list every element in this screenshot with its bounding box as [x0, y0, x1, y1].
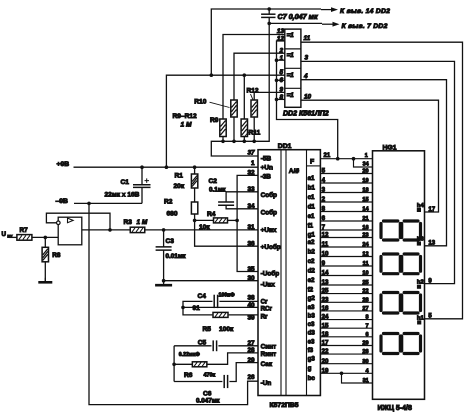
ground under R8: [44, 262, 46, 282]
svg-text:18: 18: [322, 331, 329, 338]
wire: COMMON bus pin32 to pin35: [237, 175, 258, 271]
svg-text:34: 34: [363, 162, 369, 168]
resistor R11: [241, 119, 247, 137]
svg-text:R3: R3: [124, 219, 133, 226]
svg-text:=1: =1: [287, 52, 295, 59]
svg-text:RCr: RCr: [261, 306, 273, 313]
svg-text:26: 26: [362, 349, 368, 355]
display HG1 IZhC5-4/8 body: [373, 151, 425, 399]
svg-text:25: 25: [362, 280, 368, 286]
svg-text:24: 24: [322, 314, 329, 321]
svg-text:К выв. 7 DD2: К выв. 7 DD2: [342, 23, 388, 30]
svg-text:C1: C1: [121, 179, 130, 186]
wire: input 9 line from R12: [254, 92, 285, 100]
wire: pin 29 line with C6: [229, 363, 258, 382]
svg-text:24: 24: [362, 242, 369, 248]
svg-text:-Un: -Un: [261, 380, 272, 387]
svg-text:16: 16: [322, 305, 329, 312]
svg-text:15: 15: [322, 322, 329, 329]
svg-text:20: 20: [322, 358, 329, 365]
wire segment f3: DD1 pin 17 to HG1 pin 29: [320, 345, 372, 347]
svg-text:3: 3: [305, 55, 309, 62]
svg-text:+Un: +Un: [261, 165, 273, 172]
svg-text:16: 16: [362, 225, 368, 231]
svg-text:11: 11: [304, 35, 311, 42]
svg-text:11: 11: [322, 241, 329, 248]
wire: feedback loop: [46, 213, 110, 230]
IC DD2 K561LP2 XOR gate box: [285, 29, 301, 107]
wire segment a3: DD1 pin 23 to HG1 pin 28: [320, 301, 372, 303]
LCD digit 3: [381, 293, 400, 314]
wire: F bus to inputs 12,1,6,8: [277, 41, 338, 159]
svg-text:27: 27: [362, 306, 368, 312]
svg-text:14: 14: [362, 207, 369, 213]
wire R1 top: [194, 167, 196, 174]
svg-text:10: 10: [304, 93, 312, 100]
svg-text:34: 34: [247, 203, 255, 210]
wire segment a1: DD1 pin 5 to HG1 pin 20: [320, 173, 372, 175]
svg-text:Cr: Cr: [261, 299, 268, 306]
svg-text:21: 21: [324, 153, 331, 159]
svg-text:=1: =1: [287, 92, 295, 99]
svg-text:ИЖЦ 5-4/8: ИЖЦ 5-4/8: [378, 405, 412, 412]
wire segment f1: DD1 pin 6 to HG1 pin 21: [320, 220, 372, 222]
wire segment d1: DD1 pin 2 to HG1 pin 15: [320, 201, 372, 203]
wire: -9V to DD1 pin 26 (-Un): [89, 203, 258, 404]
svg-text:-Uвх: -Uвх: [261, 282, 276, 289]
svg-text:0.1мк: 0.1мк: [209, 186, 226, 193]
svg-text:U: U: [2, 231, 7, 238]
wire input: [9, 236, 17, 238]
wire: left bar of integrator: [173, 346, 175, 382]
svg-text:+Uобр: +Uобр: [261, 243, 281, 251]
svg-text:R7: R7: [20, 227, 29, 234]
svg-text:0.22мкФ: 0.22мкФ: [179, 352, 201, 358]
wire segment d2: DD1 pin 9 to HG1 pin 11: [320, 265, 372, 267]
wire R4 to common bus: [228, 219, 238, 221]
svg-text:7: 7: [365, 323, 368, 329]
svg-text:8: 8: [322, 206, 326, 213]
wire: +9V rail to DD1 pin 1: [74, 166, 259, 168]
svg-text:36: 36: [247, 241, 255, 248]
svg-text:DD2 К561ЛП2: DD2 К561ЛП2: [283, 111, 329, 118]
wire: R11 to input 5 line: [243, 75, 245, 119]
wire: VSS line to pin 7 of DD2: [269, 22, 322, 24]
svg-text:g2: g2: [308, 295, 316, 302]
svg-text:30: 30: [247, 275, 255, 282]
svg-text:32: 32: [247, 170, 255, 177]
svg-text:R9–R12: R9–R12: [173, 113, 198, 120]
resistor R1 20k: [191, 174, 197, 188]
wire: DD2 out 4 to HG1 h3: [301, 80, 447, 246]
svg-text:R5: R5: [203, 326, 212, 333]
svg-text:1: 1: [251, 160, 255, 167]
leader R12: [251, 94, 253, 99]
svg-text:100пФ: 100пФ: [219, 292, 236, 298]
wire: pin 27 line with C5: [174, 345, 211, 347]
LCD digit 4: [381, 334, 400, 354]
svg-text:20к: 20к: [174, 183, 185, 190]
svg-text:d3: d3: [308, 330, 316, 337]
svg-text:12: 12: [362, 252, 368, 258]
svg-text:f3: f3: [308, 347, 314, 354]
wire segment b2: DD1 pin 11 to HG1 pin 24: [320, 246, 372, 248]
svg-text:Синт: Синт: [261, 344, 277, 351]
arrow: К выв.14 DD2: [321, 7, 338, 12]
svg-text:C4: C4: [198, 293, 207, 300]
wire segment bc: DD1 pin 19 to HG1 pin 4: [320, 372, 372, 374]
wire: pin 38 line with C4: [183, 301, 213, 307]
svg-text:14: 14: [322, 270, 329, 277]
wire segment g: DD1 pin 20 to HG1 pin 30: [320, 363, 372, 365]
svg-text:+9В: +9В: [57, 161, 70, 168]
svg-text:3: 3: [322, 187, 326, 194]
wire: resistor bottoms to TEST bus: [222, 137, 224, 142]
resistor R8: [44, 237, 46, 247]
capacitor C3 0.01mk: [163, 230, 165, 247]
svg-text:К выв. 14 DD2: К выв. 14 DD2: [340, 8, 390, 15]
svg-text:31: 31: [247, 224, 255, 231]
svg-text:DD1: DD1: [278, 143, 292, 150]
wire: bc to HG1 pin 31: [342, 373, 373, 383]
wire: R3 to DD1 pin 31: [145, 229, 258, 231]
LCD digit 1: [381, 221, 400, 240]
resistor R7: [17, 235, 32, 241]
resistor R10: [231, 100, 237, 117]
wire: input 5 line from +9V: [166, 75, 284, 167]
svg-text:20: 20: [362, 169, 368, 175]
wire segment c1: DD1 pin 3 to HG1 pin 18: [320, 192, 372, 194]
wire: R2 bottom node to R4 and pin 36: [195, 214, 258, 246]
wire: input 2 line from R10: [234, 53, 285, 100]
svg-text:30: 30: [362, 359, 368, 365]
svg-text:R11: R11: [249, 130, 261, 137]
svg-text:А/#: А/#: [289, 168, 300, 175]
capacitor C2 0.1mk between pins 33,34: [226, 192, 258, 202]
svg-text:-3В: -3В: [261, 174, 272, 181]
svg-text:33: 33: [247, 186, 255, 193]
capacitor C4 100pF: [214, 295, 217, 308]
svg-text:f1: f1: [308, 223, 314, 230]
wire segment b3: DD1 pin 16 to HG1 pin 27: [320, 310, 372, 312]
wire segment d3: DD1 pin 15 to HG1 pin 7: [320, 327, 372, 329]
capacitor C6 0.047mk: [224, 375, 227, 388]
resistor R12: [251, 100, 257, 117]
svg-text:13: 13: [428, 241, 435, 247]
svg-text:0.01мк: 0.01мк: [166, 253, 187, 260]
svg-text:7: 7: [322, 224, 326, 231]
svg-text:18: 18: [362, 188, 368, 194]
svg-text:17: 17: [428, 207, 435, 213]
svg-text:470к: 470к: [204, 373, 216, 379]
wire: op-amp output to R3: [82, 229, 131, 231]
svg-text:28: 28: [362, 297, 368, 303]
IC DD1 K572PV5 body: [258, 150, 320, 396]
svg-text:a3: a3: [308, 304, 315, 311]
svg-text:g: g: [308, 365, 312, 372]
wire segment g3: DD1 pin 22 to HG1 pin 26: [320, 353, 372, 355]
svg-text:–9В: –9В: [56, 198, 69, 205]
svg-text:22мк х 16В: 22мк х 16В: [105, 192, 140, 199]
svg-text:e2: e2: [308, 277, 315, 284]
wire segment c2: DD1 pin 10 to HG1 pin 12: [320, 256, 372, 258]
svg-text:1 М: 1 М: [137, 219, 148, 226]
svg-text:b1: b1: [308, 185, 316, 192]
wire: pin 30 line: [164, 280, 258, 282]
svg-text:R2: R2: [164, 199, 173, 206]
svg-text:91: 91: [193, 305, 201, 312]
svg-text:R1: R1: [175, 172, 184, 179]
svg-text:С7 0,047 мк: С7 0,047 мк: [278, 12, 318, 21]
op-amp buffer U1: [58, 217, 82, 245]
wire segment g2: DD1 pin 25 to HG1 pin 22: [320, 293, 372, 295]
svg-text:C3: C3: [166, 238, 175, 245]
svg-text:bc: bc: [308, 375, 316, 382]
svg-text:39: 39: [247, 315, 255, 322]
svg-text:d2: d2: [308, 268, 316, 275]
svg-text:R10: R10: [194, 99, 206, 106]
wire segment e3: DD1 pin 18 to HG1 pin 6: [320, 336, 372, 338]
svg-text:-5В: -5В: [261, 155, 272, 162]
svg-text:Rинт: Rинт: [261, 351, 277, 358]
wire: DD2 out 10 to HG1 h4: [301, 100, 439, 212]
wire segment f2: DD1 pin 13 to HG1 pin 25: [320, 284, 372, 286]
wire R7 to op-amp input: [32, 236, 58, 238]
svg-text:11: 11: [363, 261, 369, 267]
wire: input 13 line from R9: [223, 35, 285, 120]
svg-text:21: 21: [362, 216, 368, 222]
svg-text:Сак: Сак: [261, 361, 273, 368]
svg-text:HG1: HG1: [383, 144, 397, 151]
svg-text:b2: b2: [308, 249, 316, 256]
svg-text:25: 25: [322, 288, 329, 295]
svg-text:10: 10: [322, 251, 329, 258]
svg-text:12: 12: [322, 232, 329, 239]
capacitor C5 0.22mkF: [213, 340, 216, 351]
wire: -9V rail: [74, 202, 142, 204]
svg-text:1 М: 1 М: [181, 121, 192, 128]
wire segment a2: DD1 pin 12 to HG1 pin 23: [320, 237, 372, 239]
svg-text:C2: C2: [209, 178, 218, 185]
wire segment g1: DD1 pin 7 to HG1 pin 16: [320, 229, 372, 231]
svg-text:C6: C6: [203, 390, 212, 397]
svg-text:40: 40: [247, 302, 255, 309]
svg-text:a2: a2: [308, 239, 315, 246]
svg-text:35: 35: [247, 266, 255, 273]
svg-text:d1: d1: [308, 204, 316, 211]
svg-text:1: 1: [365, 153, 368, 159]
svg-text:F: F: [310, 159, 314, 166]
capacitor C7 0.047mk: [268, 9, 270, 14]
svg-text:15: 15: [362, 197, 368, 203]
wire R1-R2: [194, 188, 196, 202]
svg-text:29: 29: [247, 357, 255, 364]
wire segment b1: DD1 pin 4 to HG1 pin 19: [320, 182, 372, 184]
svg-text:23: 23: [362, 233, 368, 239]
svg-text:10: 10: [362, 271, 368, 277]
svg-text:R9: R9: [210, 117, 219, 124]
svg-text:6: 6: [322, 215, 326, 222]
svg-text:27: 27: [247, 340, 255, 347]
svg-text:100к: 100к: [219, 326, 234, 333]
wire: TEST bus to DD1 pin 37: [211, 23, 269, 156]
svg-text:R4: R4: [207, 211, 216, 218]
svg-text:19: 19: [322, 367, 329, 374]
resistor R2 680: [191, 202, 197, 214]
svg-text:26: 26: [247, 374, 255, 381]
wire segment e1: DD1 pin 8 to HG1 pin 14: [320, 211, 372, 213]
capacitor C1 electrolytic 22mk x 16V: [141, 167, 143, 184]
wire: DD2 out 3 to HG1 h2: [301, 61, 455, 283]
svg-text:6: 6: [365, 332, 368, 338]
resistor R5 100k: [213, 312, 228, 317]
svg-text:680: 680: [167, 211, 178, 218]
svg-text:2: 2: [322, 196, 326, 203]
svg-text:=1: =1: [287, 32, 295, 39]
svg-text:8: 8: [279, 94, 283, 101]
svg-text:c1: c1: [308, 194, 315, 201]
svg-text:31: 31: [363, 378, 369, 384]
resistor R9: [220, 119, 226, 137]
svg-text:e3: e3: [308, 338, 315, 345]
svg-text:22: 22: [322, 348, 329, 355]
svg-text:C5: C5: [198, 339, 207, 346]
wire: pin 39 line with R5: [183, 307, 212, 315]
svg-text:f2: f2: [308, 287, 314, 294]
svg-text:c3: c3: [308, 321, 315, 328]
svg-text:4: 4: [322, 177, 326, 184]
svg-text:13: 13: [322, 279, 329, 286]
resistor R6 470k: [192, 362, 207, 367]
svg-text:38: 38: [247, 294, 255, 301]
resistor R4 10k: [214, 218, 228, 223]
svg-text:4: 4: [303, 73, 308, 80]
svg-text:c2: c2: [308, 258, 315, 265]
svg-text:e1: e1: [308, 213, 315, 220]
wire: DD1 pin 21 (F) to HG1 pins 1,34: [320, 158, 372, 160]
leader R11: [245, 132, 248, 136]
svg-text:1: 1: [279, 55, 283, 62]
resistor R3 1M: [130, 227, 145, 232]
svg-text:23: 23: [322, 296, 329, 303]
svg-text:g1: g1: [308, 232, 316, 239]
svg-text:+Uвх: +Uвх: [261, 227, 277, 234]
svg-text:Rr: Rr: [261, 313, 268, 320]
wire: VDD line to pin 14 of DD2: [211, 9, 321, 75]
svg-text:b3: b3: [308, 312, 316, 319]
wire: pin 40 line: [183, 306, 258, 308]
svg-text:5: 5: [322, 168, 326, 175]
ground under C3: [155, 281, 172, 286]
svg-text:9: 9: [322, 260, 326, 267]
svg-text:17: 17: [322, 340, 329, 347]
svg-text:К572ПВ5: К572ПВ5: [270, 402, 299, 409]
svg-text:29: 29: [362, 341, 368, 347]
wire segment e2: DD1 pin 14 to HG1 pin 10: [320, 275, 372, 277]
leader R10: [210, 102, 230, 107]
svg-text:R8: R8: [52, 252, 61, 259]
svg-text:28: 28: [247, 347, 255, 354]
svg-text:R6: R6: [184, 372, 193, 379]
wire: pin 28 line with R6: [174, 363, 192, 365]
svg-text:R12: R12: [247, 88, 259, 95]
svg-text:19: 19: [362, 178, 368, 184]
svg-text:a1: a1: [308, 175, 315, 182]
wire segment c3: DD1 pin 24 to HG1 pin 8: [320, 319, 372, 321]
LCD digit 2: [381, 254, 400, 274]
svg-text:37: 37: [247, 150, 255, 157]
svg-text:8: 8: [365, 315, 368, 321]
svg-text:22: 22: [362, 289, 368, 295]
svg-text:g3: g3: [308, 356, 316, 363]
arrow: К выв.7 DD2: [322, 22, 340, 27]
wire: DD2 out 11 to HG1 h1: [301, 42, 463, 319]
svg-text:0.047мк: 0.047мк: [196, 398, 220, 405]
svg-text:-Uобр: -Uобр: [261, 270, 280, 278]
svg-text:Собр: Собр: [261, 191, 277, 199]
svg-text:Собр: Собр: [261, 208, 277, 216]
svg-text:=1: =1: [287, 72, 295, 79]
